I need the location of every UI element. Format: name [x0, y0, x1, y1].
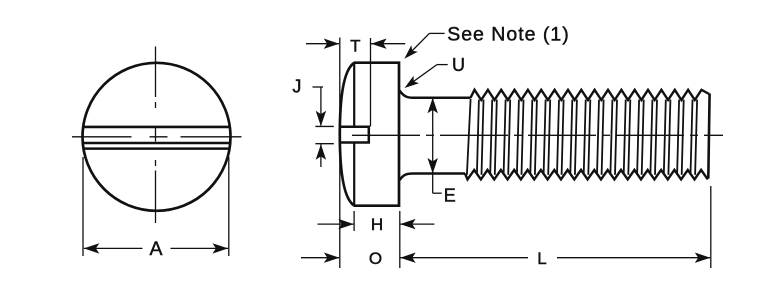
head circle (top view): [83, 63, 231, 211]
pan head outline (side view): [340, 63, 399, 206]
dimension J extension tick upper: [315, 125, 333, 127]
svg-text:A: A: [149, 238, 162, 260]
thread crest zigzag bottom: [465, 170, 708, 180]
dimension J bottom arrow: [316, 144, 326, 167]
dimension A line left segment with arrowhead: [84, 243, 143, 253]
dimension L left arrow (shared O right extension): [400, 253, 528, 263]
dimension E arrow line: [428, 98, 442, 193]
slot lower double line (top view): [84, 147, 230, 150]
dimension T right extension line: [370, 38, 372, 127]
thread flank lines: [467, 99, 697, 175]
shank bottom line with fillet: [400, 174, 466, 181]
dimension T left arrow: [306, 39, 339, 49]
svg-text:U: U: [452, 55, 465, 75]
dimension J extension tick lower: [315, 143, 333, 145]
svg-text:H: H: [371, 215, 383, 234]
slot bottom profile line upper (side view): [353, 63, 355, 127]
screw tip end face: [708, 94, 709, 179]
top view: vertical center line: [155, 47, 157, 224]
svg-text:L: L: [537, 249, 546, 268]
dimension A extension line right: [228, 157, 230, 256]
dimension H left arrow: [318, 219, 354, 229]
dimension H right extension line: [399, 211, 401, 268]
dimension J top arrow: [316, 87, 326, 126]
slot bottom profile line lower (side view): [353, 143, 355, 206]
dimension A extension line left: [82, 157, 84, 256]
dimension H right arrow: [400, 219, 434, 229]
dimension L right extension line: [710, 186, 712, 268]
svg-text:E: E: [444, 186, 456, 206]
svg-text:T: T: [350, 37, 360, 56]
see note leader: [404, 33, 444, 58]
svg-text:O: O: [369, 249, 382, 268]
side view: screw axis center line: [352, 134, 723, 136]
slot top edge (top view): [83, 126, 229, 129]
dimension O left extension line: [339, 150, 341, 268]
dimension T right arrow: [371, 39, 405, 49]
slot notch (side view): [340, 127, 369, 143]
dimension L right segment with arrowhead: [557, 253, 710, 263]
dimension O left arrow: [301, 253, 339, 263]
svg-text:J: J: [292, 77, 301, 97]
slot bottom edge (top view): [83, 142, 230, 145]
dimension T left extension line: [339, 38, 341, 119]
thread crest zigzag top: [471, 90, 710, 100]
svg-text:See Note (1): See Note (1): [447, 24, 570, 46]
dimension J elbow bar: [313, 86, 324, 88]
shank top line with fillet U: [400, 91, 471, 98]
U leader with arrowhead: [405, 65, 448, 88]
dimension A line right segment with arrowhead: [171, 243, 229, 253]
dimension H left extension line: [353, 211, 355, 231]
top view: horizontal center line: [72, 136, 242, 138]
